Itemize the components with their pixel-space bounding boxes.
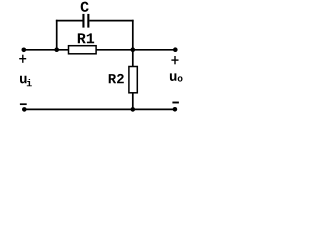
node: left input terminal dot [22, 48, 27, 53]
polarity +: left input plus sign [19, 55, 26, 63]
wire: capacitor branch top, right segment [89, 20, 133, 22]
node: junction dot at left riser [54, 47, 59, 52]
label C [81, 2, 89, 12]
label u_o : output voltage [170, 73, 183, 81]
resistor R2 body [129, 67, 137, 93]
wire: from right junction down to R2 [132, 50, 134, 67]
node: bottom right terminal dot [173, 107, 178, 112]
polarity +: right output plus sign [171, 56, 178, 64]
node: right output terminal dot [173, 47, 178, 52]
wire: from R2 down to bottom line [132, 92, 134, 109]
polarity -: right output minus sign [172, 102, 179, 104]
polarity -: left input minus sign [20, 103, 27, 105]
wire: bottom return line [24, 108, 175, 110]
label R1 [78, 33, 94, 43]
label u_i : input voltage [20, 76, 32, 87]
wire: capacitor branch top, left segment [56, 20, 83, 22]
wire: left vertical riser from main line up to capacitor branch [56, 20, 58, 50]
resistor R1 body [69, 46, 97, 54]
node: bottom left terminal dot [22, 107, 27, 112]
wire: main line, R1 to right junction to right terminal [96, 49, 175, 51]
node: junction dot at right riser [131, 47, 136, 52]
label R2 [109, 74, 124, 83]
capacitor C plates [82, 14, 89, 28]
node: bottom junction dot under R2 [131, 107, 136, 112]
wire: right vertical riser from capacitor branch down to main line [132, 20, 134, 50]
wire: main line, left terminal to left junction and on to R1 [24, 49, 69, 51]
